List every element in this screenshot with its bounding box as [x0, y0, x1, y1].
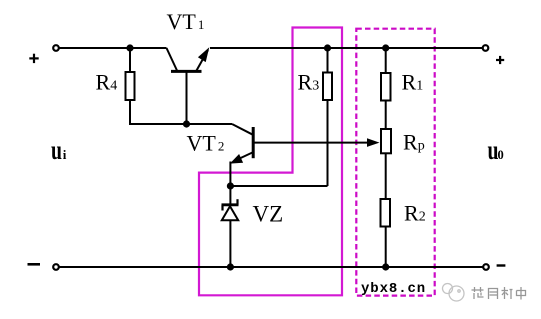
wire VT2 collector diagonal	[232, 124, 253, 135]
VT1 emitter arrow	[198, 47, 209, 62]
output - terminal	[483, 264, 489, 270]
VT2 emitter arrow	[230, 154, 243, 164]
VZ top wire	[229, 186, 231, 205]
svg-text:VT1: VT1	[167, 9, 205, 34]
svg-text:i: i	[63, 147, 67, 162]
wire emitter node to R3 bottom	[230, 185, 327, 187]
resistor R1	[381, 73, 391, 101]
resistor R2	[381, 199, 391, 227]
svg-text:R1: R1	[402, 70, 424, 95]
input + sign	[29, 54, 38, 63]
VZ cathode left tick	[221, 205, 223, 211]
sampling network dashed magenta box	[356, 29, 434, 296]
char bei	[502, 287, 513, 299]
bottom rail	[59, 266, 483, 268]
svg-text:0: 0	[498, 148, 504, 162]
resistor R3	[323, 73, 332, 101]
output + terminal	[483, 45, 489, 51]
output - sign	[497, 264, 506, 266]
node VZ anode on bottom rail	[227, 263, 234, 270]
char hua	[472, 287, 484, 299]
VZ cathode bar	[222, 203, 239, 206]
VT1 collector lead	[167, 48, 178, 71]
VT1 base lead	[186, 71, 188, 124]
svg-text:u: u	[51, 135, 62, 165]
top rail left segment	[59, 47, 167, 49]
node VT1 base / R4 / VT2 collector	[183, 120, 190, 127]
svg-text:R4: R4	[96, 70, 118, 95]
potentiometer Rp	[381, 129, 391, 153]
VZ triangle	[222, 206, 238, 220]
wire R4 bottom to base node	[130, 100, 232, 124]
input + terminal	[53, 45, 59, 51]
VT2 emitter lead	[235, 152, 253, 161]
VT1 base bar	[171, 70, 202, 73]
node R2 bottom rail junction	[382, 263, 389, 270]
svg-text:Rp: Rp	[403, 130, 425, 155]
wire R4 top	[129, 48, 131, 72]
svg-text:R2: R2	[404, 201, 426, 226]
watermark text 花月杯中	[472, 287, 526, 300]
VT2 emitter wire down	[229, 162, 231, 187]
output + sign	[496, 56, 504, 64]
transistor VT1	[167, 47, 210, 124]
top rail right segment	[210, 47, 483, 49]
wire R2 bottom	[385, 227, 387, 268]
wire R3 bottom	[327, 100, 329, 186]
VZ cathode right tick	[236, 199, 238, 205]
node R1 top rail junction	[382, 44, 389, 51]
svg-text:ybx8.cn: ybx8.cn	[361, 281, 426, 297]
svg-text:VT2: VT2	[187, 131, 225, 156]
Rp wiper arrow	[367, 138, 380, 147]
VT1 emitter lead	[197, 50, 209, 71]
node R4 top rail junction	[126, 44, 133, 51]
resistor R4	[126, 72, 135, 100]
VZ bottom wire	[229, 220, 231, 267]
node R3 top rail junction	[324, 44, 331, 51]
input - terminal	[53, 264, 59, 270]
input - sign	[28, 263, 41, 266]
svg-text:VZ: VZ	[253, 202, 284, 227]
char zhong	[517, 287, 526, 300]
svg-text:R3: R3	[298, 70, 320, 95]
node VT2 emitter / R3 / VZ	[227, 182, 234, 189]
transistor VT2	[230, 127, 380, 186]
watermark logo	[443, 284, 465, 302]
wire Rp to R2	[385, 153, 387, 199]
wire R1 top	[385, 48, 387, 73]
zener diode VZ	[222, 186, 239, 267]
char yue	[489, 289, 498, 300]
regulated section solid magenta outline	[199, 28, 342, 296]
wire R1 to Rp	[385, 101, 387, 130]
VT2 base bar	[252, 127, 255, 158]
VT2 base wire to Rp wiper	[253, 142, 368, 144]
wire R3 top	[327, 48, 329, 73]
